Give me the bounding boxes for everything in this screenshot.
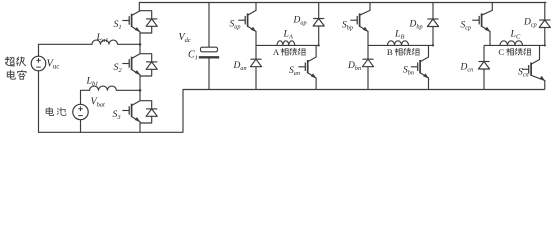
label C相绕组 xyxy=(498,47,531,57)
label Scn xyxy=(518,67,529,78)
wire Vbat bottom to bottom bus xyxy=(80,120,82,133)
label Dan xyxy=(233,61,247,72)
wire S3 emitter to bottom bus xyxy=(139,122,141,133)
inductor LA xyxy=(277,41,295,46)
label C1 xyxy=(188,50,198,62)
inductor Lb1 xyxy=(90,86,117,90)
label Vdc xyxy=(179,32,191,44)
voltage source Vuc (supercapacitor) xyxy=(31,56,46,71)
wire S2 emitter to N2 xyxy=(139,75,141,91)
transistor S3 xyxy=(122,101,140,123)
diode Dbn xyxy=(362,45,373,89)
wire Vuc top to Lu1 xyxy=(39,44,93,56)
label Dcp xyxy=(523,17,537,28)
transistor S1 xyxy=(122,11,140,33)
wire S1 emitter to N1 xyxy=(139,32,141,45)
wire Lb1 to node N2 xyxy=(116,89,140,91)
capacitor C1 xyxy=(199,47,219,57)
wire Scn emitter to bottom rail xyxy=(544,81,546,90)
label Sap xyxy=(230,19,241,30)
label Dap xyxy=(293,16,307,27)
wire top rail to Sbp xyxy=(369,3,371,11)
node phase b right xyxy=(432,44,434,46)
node N1 xyxy=(139,43,142,46)
wire San emitter to bottom rail xyxy=(315,78,317,90)
wire winding to San xyxy=(315,45,317,57)
label Lu1 xyxy=(96,32,109,44)
label Dbn xyxy=(347,61,361,72)
inductor LB xyxy=(388,41,409,46)
wire N1 to S2 xyxy=(139,44,141,53)
wire Vuc bottom to bottom bus xyxy=(38,71,40,133)
wire top rail right corner xyxy=(545,2,546,4)
label S3 xyxy=(113,109,121,121)
diode Dan xyxy=(250,45,261,89)
wire bottom bus xyxy=(39,90,184,133)
label Dbp xyxy=(409,19,423,30)
wire top rail to Sap xyxy=(255,3,257,11)
label Scp xyxy=(461,20,472,31)
label Sbn xyxy=(403,65,414,76)
diode Dap xyxy=(313,3,324,46)
wire Lu1 to node N1 xyxy=(118,43,141,45)
wire N2 to S3 xyxy=(139,90,141,100)
wire top rail to Scp xyxy=(491,3,493,11)
diode Dcp xyxy=(539,3,550,46)
node phase a right xyxy=(318,44,320,46)
wire Scp emitter to winding xyxy=(489,31,491,45)
label 电池 xyxy=(46,107,66,115)
wire winding c xyxy=(484,44,545,46)
transistor Sbn xyxy=(411,57,429,79)
svg-text:B: B xyxy=(387,47,393,57)
wire C1 top lead xyxy=(208,3,210,48)
inductor LC xyxy=(500,41,523,46)
label S2 xyxy=(114,62,123,74)
wire winding to Sbn xyxy=(428,45,430,57)
label Lb1 xyxy=(86,76,99,88)
wire Sbn emitter to bottom rail xyxy=(428,78,430,90)
svg-text:A: A xyxy=(273,47,280,57)
label LA xyxy=(283,28,293,40)
wire top rail xyxy=(139,2,546,4)
transistor San xyxy=(298,57,316,79)
wire Sap emitter to winding xyxy=(255,31,257,45)
inductor Lu1 xyxy=(92,40,118,44)
label San xyxy=(289,66,300,77)
node phase c right xyxy=(544,44,546,46)
transistor Scp xyxy=(472,10,492,32)
label Vbat xyxy=(91,97,106,109)
wire bottom rail xyxy=(183,89,545,91)
svg-text:C: C xyxy=(498,47,504,57)
wire winding a xyxy=(256,44,319,46)
wire winding b xyxy=(368,44,433,46)
diode of S3 xyxy=(140,101,157,123)
node N2 xyxy=(139,89,142,92)
label LC xyxy=(510,28,521,40)
wire top rail to S1 xyxy=(138,3,140,11)
diode of S1 xyxy=(140,11,157,33)
label 超级电容 xyxy=(5,57,26,79)
label Sbp xyxy=(342,20,353,31)
wire C1 bottom lead xyxy=(208,57,210,89)
label B相绕组 xyxy=(387,47,420,57)
label S1 xyxy=(114,19,122,31)
wire winding to Scn xyxy=(539,45,541,59)
diode Dcn xyxy=(478,45,489,89)
diode Dbp xyxy=(427,3,438,46)
label LB xyxy=(394,28,404,40)
wire Vbat top to Lb1 xyxy=(81,90,90,104)
label Vuc xyxy=(47,59,60,71)
transistor Sbp xyxy=(350,10,370,32)
transistor S2 xyxy=(122,54,140,76)
voltage source Vbat (battery) xyxy=(73,104,88,119)
wire Sbp emitter to winding xyxy=(367,31,369,45)
label Dcn xyxy=(460,62,474,73)
label A相绕组 xyxy=(273,47,306,57)
transistor Sap xyxy=(238,10,256,32)
transistor Scn xyxy=(522,60,545,82)
diode of S2 xyxy=(140,54,157,76)
